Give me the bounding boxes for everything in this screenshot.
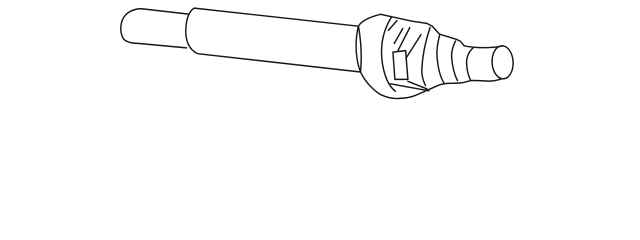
hex bottom silhouette <box>399 83 448 98</box>
terminal stud <box>121 9 188 48</box>
ring top-right segment <box>381 14 391 16</box>
glow plug line illustration <box>0 0 640 106</box>
hex right step <box>427 23 440 34</box>
ring2 top edge <box>440 34 465 46</box>
hex top edge <box>391 17 427 24</box>
hex lower front edge <box>408 81 427 89</box>
ring2 left arc <box>437 35 444 83</box>
tip top edge <box>464 46 503 48</box>
ring2 right arc <box>452 41 458 81</box>
shell ring outer arc (left silhouette of shoulder) <box>356 14 399 98</box>
hex front facet quad <box>393 51 408 80</box>
hex left end face arc <box>382 17 396 91</box>
tip end face ellipse <box>491 45 514 79</box>
insulator body (white ceramic cylinder) <box>186 8 361 72</box>
hex right end face arc <box>422 28 430 86</box>
hex facet chords <box>388 21 397 31</box>
tip left-end arc <box>467 48 474 81</box>
bottom silhouette of shank area <box>448 79 502 84</box>
hex lower inner edge <box>390 84 429 91</box>
